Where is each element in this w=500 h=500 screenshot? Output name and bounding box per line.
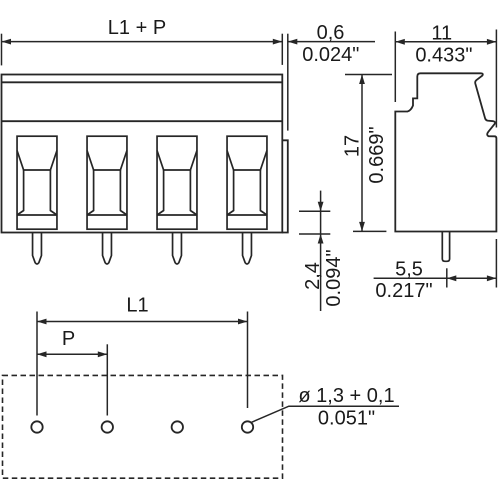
svg-text:0.669": 0.669" (366, 126, 388, 183)
side view solder pin (442, 232, 449, 262)
dimension 11 (395, 30, 496, 128)
pin 4 (243, 233, 252, 265)
window 1 (17, 136, 57, 229)
PCB outline dashed (3, 375, 283, 478)
svg-text:P: P (62, 328, 75, 350)
dimension 17 (345, 75, 392, 232)
window 4 (227, 136, 267, 229)
hole 2 (102, 421, 113, 432)
front view top strip line (2, 81, 283, 83)
pin 1 (33, 233, 42, 265)
svg-text:0.433": 0.433" (415, 45, 472, 67)
svg-text:L1 + P: L1 + P (108, 17, 166, 39)
side view body outline (395, 73, 496, 231)
window 2 (87, 136, 127, 229)
pin 3 (173, 233, 182, 265)
hole 1 (31, 421, 42, 432)
clamp windows (17, 136, 267, 229)
svg-text:2,4: 2,4 (302, 262, 324, 290)
svg-text:11: 11 (431, 23, 452, 45)
hole center lines (37, 312, 248, 416)
svg-text:0,6: 0,6 (317, 22, 345, 44)
dimension 5,5 (374, 239, 497, 288)
svg-text:ø 1,3 + 0,1: ø 1,3 + 0,1 (298, 385, 394, 407)
dimension 0,6 (288, 34, 375, 131)
hole 3 (172, 421, 183, 432)
dimension L1+P (2, 34, 283, 66)
svg-text:5,5: 5,5 (395, 259, 423, 281)
hole 4 (242, 421, 253, 432)
center line hole 4 (247, 312, 249, 409)
end plate 0.6mm (282, 140, 288, 232)
svg-text:0.051": 0.051" (318, 408, 375, 430)
front view body outline (2, 75, 283, 233)
svg-text:0.217": 0.217" (375, 280, 432, 302)
dimension 2,4 (299, 191, 330, 311)
center line hole 2 (106, 344, 108, 415)
svg-text:0.094": 0.094" (323, 249, 345, 306)
dimension P (37, 351, 107, 357)
svg-text:17: 17 (342, 135, 364, 157)
center line hole 1 (36, 312, 38, 416)
svg-text:0.024": 0.024" (302, 44, 359, 66)
leader line to hole 4 (252, 406, 400, 422)
solder pins front view (33, 233, 252, 265)
svg-text:L1: L1 (126, 295, 148, 317)
front view upper section line (2, 120, 283, 122)
pin 2 (103, 233, 112, 265)
dimension L1 (37, 319, 248, 325)
window 3 (157, 136, 197, 229)
